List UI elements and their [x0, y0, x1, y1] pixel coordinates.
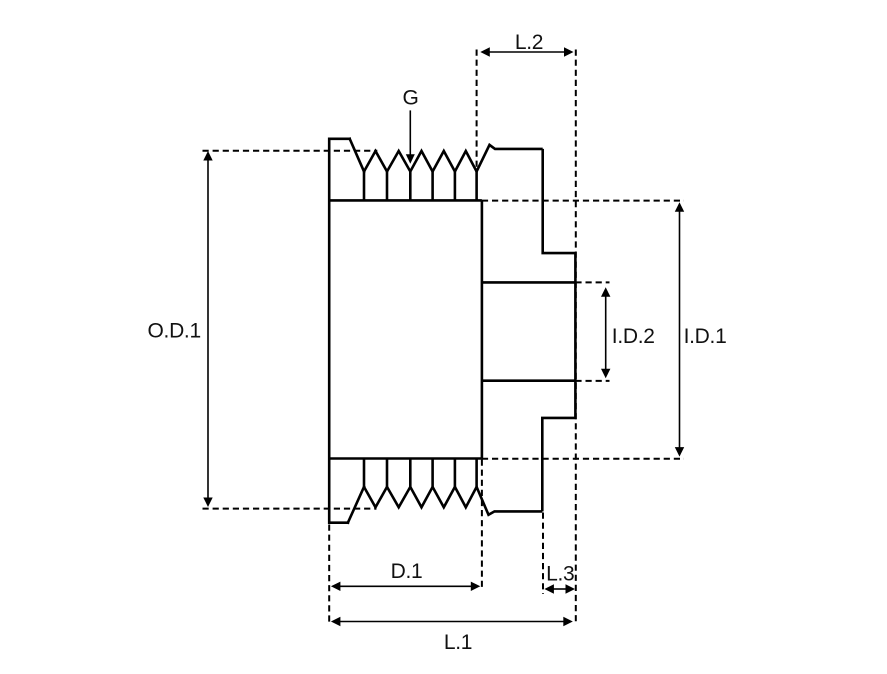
- dashed extension O.D.1 bottom: [203, 508, 377, 510]
- svg-text:I.D.2: I.D.2: [612, 325, 655, 348]
- top rib zigzag profile: [364, 145, 543, 172]
- dashed extension I.D.2 bottom: [575, 380, 609, 382]
- bottom rib zigzag profile: [364, 487, 542, 515]
- dashed extension L.3 left: [542, 513, 544, 595]
- svg-text:G: G: [402, 86, 418, 109]
- bore lower line: [482, 379, 576, 382]
- svg-text:I.D.1: I.D.1: [684, 325, 727, 348]
- svg-text:O.D.1: O.D.1: [148, 319, 201, 342]
- dimension I.D.1 arrow: [675, 202, 684, 456]
- top rib base line: [329, 199, 482, 202]
- bottom rib base line: [329, 457, 482, 460]
- bottom rib groove verticals: [364, 459, 477, 487]
- dashed extension I.D.1 bottom: [482, 458, 684, 460]
- dimension L.3 arrow: [544, 584, 575, 593]
- pulley left face and flange tabs: [329, 139, 364, 523]
- dashed extension O.D.1 top: [203, 150, 378, 152]
- svg-text:L.2: L.2: [515, 31, 543, 54]
- dashed extension L.2 left: [476, 50, 478, 172]
- dimension D.1 arrow: [331, 582, 480, 591]
- dimension I.D.2 arrow: [601, 287, 610, 378]
- dashed extension D.1 left: [328, 525, 330, 624]
- hub outer stepped profile: [542, 149, 575, 512]
- dashed extension L.2 L.1 right: [575, 50, 577, 624]
- svg-text:D.1: D.1: [391, 560, 423, 583]
- svg-text:L.1: L.1: [444, 631, 472, 654]
- dashed extension D.1 right: [481, 460, 483, 591]
- bore upper line: [482, 281, 576, 284]
- svg-text:L.3: L.3: [546, 563, 574, 586]
- main body right edge: [481, 200, 484, 458]
- dashed extension I.D.2 top: [575, 281, 609, 283]
- dimension L.1 arrow: [331, 617, 573, 626]
- dashed extension I.D.1 top: [482, 200, 684, 202]
- dimension L.2 arrow: [480, 47, 573, 56]
- dimension O.D.1 arrow: [203, 151, 212, 507]
- groove pointer arrow G: [406, 110, 415, 163]
- top rib groove verticals: [364, 172, 477, 201]
